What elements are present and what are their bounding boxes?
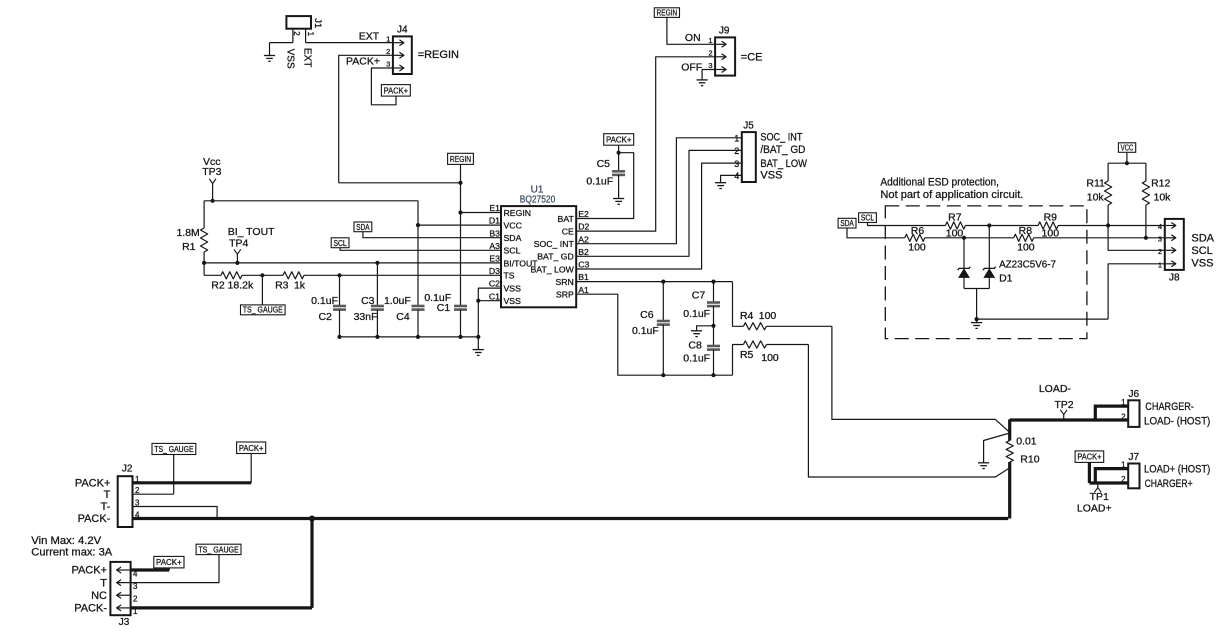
svg-text:2: 2 [133,595,138,604]
svg-text:2: 2 [1158,247,1162,256]
svg-text:T-: T- [101,501,111,513]
svg-text:4: 4 [734,171,739,181]
svg-text:1: 1 [734,134,739,144]
svg-text:CHARGER+: CHARGER+ [1145,478,1193,490]
svg-text:PACK+: PACK+ [384,85,408,95]
svg-text:T: T [100,577,107,589]
svg-text:R4: R4 [740,310,754,322]
svg-text:VSS: VSS [760,170,782,182]
svg-text:PACK+: PACK+ [346,56,380,68]
svg-text:2: 2 [1121,412,1126,421]
svg-text:SDA: SDA [356,222,370,232]
svg-text:REGIN: REGIN [504,208,532,218]
svg-text:SDA: SDA [840,218,854,228]
svg-text:Current max: 3A: Current max: 3A [31,546,113,558]
svg-text:J5: J5 [743,121,754,132]
svg-text:D2: D2 [578,222,589,232]
svg-text:2: 2 [386,47,390,56]
svg-text:CE: CE [562,227,574,237]
svg-text:SCL: SCL [504,246,521,256]
svg-text:B1: B1 [578,272,589,282]
svg-text:PACK+: PACK+ [1077,452,1101,462]
svg-text:VSS: VSS [504,284,522,294]
svg-text:C6: C6 [640,309,654,321]
svg-text:BAT_ GD: BAT_ GD [537,252,574,262]
svg-text:2: 2 [292,31,301,36]
svg-text:PACK+: PACK+ [239,443,264,453]
svg-text:AZ23C5V6-7: AZ23C5V6-7 [999,258,1056,270]
svg-text:VCC: VCC [504,221,522,231]
svg-text:0.01: 0.01 [1016,436,1037,448]
svg-text:PACK+: PACK+ [156,557,182,567]
svg-text:R7: R7 [948,212,962,224]
svg-text:LOAD-: LOAD- [1039,383,1072,395]
svg-text:100: 100 [761,352,779,364]
svg-text:SOC_ INT: SOC_ INT [760,132,802,144]
svg-text:LOAD- (HOST): LOAD- (HOST) [1144,415,1210,427]
svg-text:PACK-: PACK- [78,513,111,525]
svg-text:E3: E3 [489,254,500,264]
svg-text:C5: C5 [597,158,611,170]
svg-text:1: 1 [386,34,390,43]
svg-text:REGIN: REGIN [657,8,678,18]
svg-text:1k: 1k [294,279,306,291]
svg-text:VCC: VCC [1121,143,1134,153]
svg-text:CHARGER-: CHARGER- [1145,401,1194,413]
svg-text:3: 3 [133,582,138,591]
svg-text:E2: E2 [578,209,589,219]
svg-text:ON: ON [685,32,701,44]
svg-text:R6: R6 [911,225,925,237]
svg-text:PACK+: PACK+ [75,478,111,490]
svg-text:VSS: VSS [284,49,295,69]
svg-text:2: 2 [708,49,712,58]
svg-text:EXT: EXT [302,48,313,67]
svg-text:BAT_ LOW: BAT_ LOW [531,264,575,274]
svg-text:J1: J1 [312,18,323,28]
svg-text:Not part of application circui: Not part of application circuit. [880,189,1023,201]
svg-text:SDA: SDA [1191,233,1214,245]
svg-text:0.1uF: 0.1uF [586,176,613,188]
svg-text:BQ27520: BQ27520 [520,195,556,206]
svg-text:TP4: TP4 [229,237,248,249]
svg-text:/BAT_ GD: /BAT_ GD [760,144,805,156]
svg-text:TS_ GAUGE: TS_ GAUGE [243,306,283,315]
svg-text:R3: R3 [275,279,289,291]
svg-text:33nF: 33nF [354,311,378,323]
svg-text:SRN: SRN [555,277,573,287]
svg-text:100: 100 [946,227,964,239]
svg-text:TP2: TP2 [1054,399,1073,411]
svg-text:3: 3 [708,61,712,70]
svg-text:4: 4 [1158,222,1162,231]
svg-text:C8: C8 [688,339,702,351]
svg-text:B3: B3 [489,228,500,238]
svg-text:A2: A2 [578,234,589,244]
svg-text:0.1uF: 0.1uF [311,295,338,307]
svg-text:C1: C1 [437,302,451,314]
svg-text:J4: J4 [397,24,408,35]
svg-text:LOAD+ (HOST): LOAD+ (HOST) [1144,463,1210,475]
svg-text:VSS: VSS [1191,258,1213,270]
svg-text:2: 2 [734,146,739,156]
svg-text:10k: 10k [1087,192,1105,204]
svg-text:R10: R10 [1020,454,1039,466]
svg-text:J6: J6 [1129,389,1140,400]
svg-text:R1: R1 [182,241,196,253]
svg-text:C1: C1 [489,291,500,301]
svg-text:1: 1 [708,36,712,45]
svg-text:A1: A1 [578,285,589,295]
svg-text:BI_ TOUT: BI_ TOUT [228,226,275,238]
svg-text:R12: R12 [1151,177,1170,189]
svg-text:PACK-: PACK- [74,603,107,615]
svg-text:TP1: TP1 [1090,491,1109,503]
svg-text:100: 100 [908,242,926,254]
svg-text:BAT_ LOW: BAT_ LOW [760,158,807,170]
svg-text:100: 100 [1017,242,1035,254]
svg-text:J7: J7 [1129,452,1140,463]
svg-text:C7: C7 [692,289,706,301]
svg-text:EXT: EXT [359,30,380,42]
svg-text:R11: R11 [1086,177,1105,189]
svg-text:R9: R9 [1044,212,1058,224]
svg-text:3: 3 [386,60,390,69]
svg-text:1: 1 [1158,260,1162,269]
svg-text:=CE: =CE [741,51,763,63]
svg-text:=REGIN: =REGIN [418,49,459,61]
svg-text:D3: D3 [489,266,500,276]
svg-text:LOAD+: LOAD+ [1077,502,1112,514]
svg-text:D1: D1 [999,273,1013,285]
svg-text:1.0uF: 1.0uF [384,295,411,307]
svg-text:J2: J2 [122,464,133,475]
svg-text:C2: C2 [489,279,500,289]
svg-text:R5: R5 [740,349,754,361]
svg-text:E1: E1 [489,203,500,213]
svg-text:REGIN: REGIN [450,154,471,164]
svg-text:VSS: VSS [504,296,522,306]
svg-text:PACK+: PACK+ [606,135,632,145]
svg-text:NC: NC [91,590,107,602]
svg-text:C4: C4 [396,311,410,323]
svg-text:0.1uF: 0.1uF [683,308,710,320]
svg-text:BAT: BAT [558,214,575,224]
svg-text:R8: R8 [1019,225,1033,237]
svg-text:100: 100 [1042,227,1060,239]
svg-text:B2: B2 [578,247,589,257]
svg-text:SOC_ INT: SOC_ INT [534,239,575,249]
svg-text:TS_ GAUGE: TS_ GAUGE [198,545,238,554]
svg-text:0.1uF: 0.1uF [632,325,659,337]
svg-text:J8: J8 [1169,273,1180,284]
svg-text:1: 1 [306,32,315,37]
svg-text:OFF: OFF [681,61,702,73]
svg-text:Additional ESD protection,: Additional ESD protection, [880,177,999,189]
svg-text:SCL: SCL [333,238,347,248]
svg-text:C2: C2 [318,311,332,323]
svg-text:3: 3 [1158,235,1162,244]
svg-text:4: 4 [135,511,140,520]
svg-text:SCL: SCL [1191,245,1212,257]
svg-text:SCL: SCL [861,213,875,223]
svg-text:R2: R2 [211,279,225,291]
svg-text:J9: J9 [719,26,730,37]
svg-text:C3: C3 [361,295,375,307]
svg-text:0.1uF: 0.1uF [683,353,710,365]
svg-text:D1: D1 [489,216,500,226]
svg-text:10k: 10k [1154,192,1172,204]
svg-text:100: 100 [759,310,777,322]
svg-text:T: T [104,489,111,501]
svg-text:A3: A3 [489,241,500,251]
svg-text:1.8M: 1.8M [176,227,199,239]
svg-text:TS_ GAUGE: TS_ GAUGE [154,445,193,454]
svg-text:TP3: TP3 [202,166,221,178]
svg-text:3: 3 [734,159,739,169]
svg-text:TS: TS [504,271,515,281]
svg-text:J3: J3 [119,617,130,628]
svg-text:SRP: SRP [556,290,574,300]
svg-text:PACK+: PACK+ [71,565,107,577]
svg-text:18.2k: 18.2k [228,279,254,291]
svg-text:C3: C3 [578,260,589,270]
svg-text:SDA: SDA [504,233,522,243]
